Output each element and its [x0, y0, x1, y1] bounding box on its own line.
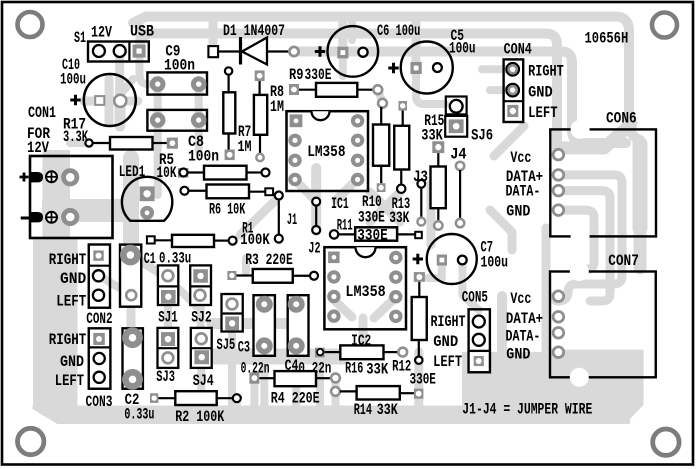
- ground pour left upper: [43, 150, 71, 238]
- jumper J4: [456, 162, 464, 228]
- wire R9 to R10: [378, 90, 383, 103]
- svg-text:RIGHT: RIGHT: [528, 62, 564, 80]
- svg-text:330E: 330E: [357, 226, 388, 244]
- svg-text:10656H: 10656H: [585, 30, 629, 48]
- svg-text:12V: 12V: [27, 139, 49, 157]
- svg-text:GND: GND: [506, 202, 530, 220]
- wire LED column: [123, 158, 139, 256]
- wire top bus 2: [140, 34, 557, 150]
- wire R16 pad down: [316, 357, 324, 406]
- svg-text:GND: GND: [506, 346, 530, 364]
- resistor R6: [181, 185, 274, 199]
- wire IC1 pin4 diag: [295, 180, 316, 201]
- wire C10 horizontal: [84, 97, 138, 106]
- svg-text:CON2: CON2: [86, 310, 112, 328]
- svg-text:SJ6: SJ6: [471, 127, 493, 145]
- svg-text:C1: C1: [144, 250, 156, 268]
- wire SJ1 to SJ4 diag: [179, 289, 196, 306]
- svg-text:100u: 100u: [481, 254, 509, 272]
- wire C10 vertical: [105, 79, 114, 123]
- svg-text:100K: 100K: [240, 231, 270, 249]
- wire CON2 to C1 diag: [101, 277, 128, 293]
- svg-text:100u: 100u: [449, 40, 476, 58]
- svg-text:R11: R11: [337, 216, 353, 234]
- capacitor C1: [120, 245, 141, 307]
- CON1 plus: [20, 173, 29, 182]
- capacitor C10: [84, 74, 136, 126]
- wire C1 to C2: [127, 307, 136, 328]
- svg-text:33K: 33K: [366, 361, 388, 379]
- svg-text:DATA+: DATA+: [506, 310, 543, 328]
- wire R2 right down: [233, 398, 241, 406]
- wire C10 down: [115, 101, 126, 126]
- resistor R9: [289, 83, 382, 97]
- svg-text:J3: J3: [413, 168, 428, 186]
- svg-text:3.3K: 3.3K: [63, 128, 88, 146]
- wire top to D1 anode: [209, 17, 218, 47]
- capacitor C9: [147, 72, 207, 94]
- C10 plus sign: [70, 95, 80, 105]
- svg-text:R9: R9: [289, 66, 304, 84]
- wire CON5 right column: [497, 296, 507, 352]
- capacitor C7: [427, 234, 477, 284]
- svg-text:33K: 33K: [421, 127, 443, 145]
- solder jumper SJ5: [222, 294, 243, 332]
- diode D1: [208, 37, 298, 65]
- C5 plus: [388, 63, 398, 73]
- mounting hole bottom-right: [653, 429, 679, 455]
- wire C4 down: [292, 356, 300, 406]
- wire under C3 band1: [210, 349, 345, 357]
- wire diag near GND: [490, 210, 512, 250]
- LED LED1: [122, 177, 172, 221]
- wire SJ2 to SJ4: [197, 306, 205, 327]
- resistor R15: [431, 141, 446, 230]
- svg-text:CON4: CON4: [504, 40, 532, 58]
- svg-text:J1: J1: [287, 211, 297, 229]
- wire S1 pin3 stub: [136, 28, 144, 48]
- svg-text:33K: 33K: [389, 209, 409, 227]
- svg-text:LM358: LM358: [307, 143, 345, 161]
- svg-text:CON5: CON5: [462, 289, 488, 307]
- svg-text:GND: GND: [60, 353, 84, 371]
- svg-text:GND: GND: [528, 83, 553, 101]
- svg-text:1M: 1M: [238, 138, 252, 156]
- svg-text:R12: R12: [392, 358, 411, 376]
- svg-text:R6 10K: R6 10K: [209, 200, 246, 218]
- wire CON6 inner plane: [633, 144, 648, 228]
- wire CON7 pad1 stub: [546, 292, 556, 300]
- svg-text:CON1: CON1: [28, 104, 56, 122]
- ground pour bottom band: [33, 406, 631, 425]
- svg-text:100n: 100n: [164, 57, 195, 75]
- wire C9-C8 left: [154, 84, 162, 195]
- svg-text:DATA-: DATA-: [506, 328, 541, 346]
- wire CON6 to CON7 gap band: [634, 228, 647, 268]
- resistor R8: [254, 70, 267, 161]
- resistor R13: [394, 101, 409, 193]
- wire CON1 horizontal band: [42, 199, 131, 222]
- wire IC2 pin diag1: [334, 300, 352, 317]
- svg-text:LED1: LED1: [119, 163, 145, 181]
- svg-text:SJ4: SJ4: [193, 372, 214, 390]
- resistor R16: [315, 345, 407, 359]
- C6 plus: [315, 46, 325, 56]
- wire top bus 3: [294, 52, 626, 144]
- capacitor C3: [254, 295, 275, 356]
- wire IC2 center down: [359, 318, 368, 346]
- svg-text:IC1: IC1: [331, 195, 349, 213]
- solder jumper SJ4: [191, 328, 212, 368]
- C7 plus: [413, 254, 423, 264]
- ground pour left lower: [33, 238, 78, 424]
- svg-text:CON6: CON6: [606, 110, 637, 128]
- mounting hole top-right: [652, 13, 677, 38]
- connector CON3: [89, 328, 111, 388]
- svg-text:C6 100u: C6 100u: [377, 22, 420, 40]
- svg-text:330E: 330E: [358, 208, 385, 226]
- svg-text:RIGHT: RIGHT: [49, 331, 87, 349]
- wire CON7 left column: [542, 228, 551, 350]
- resistor R7: [223, 67, 235, 160]
- wire CON6 data- nest: [564, 191, 610, 301]
- svg-text:D1 1N4007: D1 1N4007: [223, 22, 285, 40]
- resistor R14: [331, 386, 423, 399]
- mounting hole bottom-left: [18, 428, 44, 454]
- wire R15 column: [427, 184, 436, 245]
- svg-text:J2: J2: [308, 239, 320, 257]
- resistor R11 330E: [330, 227, 422, 240]
- svg-text:12V: 12V: [91, 24, 112, 42]
- wire C10 diag: [120, 79, 133, 95]
- wire top to C5 pos: [412, 17, 421, 63]
- solder jumper SJ2: [190, 265, 211, 305]
- capacitor C6: [328, 26, 379, 77]
- wire S1 pin3 to C9: [140, 51, 154, 84]
- wire C5 to SJ6: [416, 74, 445, 104]
- wire C1 to SJ1 diag: [131, 255, 166, 277]
- wire J2 column: [311, 168, 321, 231]
- svg-text:SJ5: SJ5: [217, 336, 236, 354]
- svg-text:330E: 330E: [305, 66, 332, 84]
- resistor R12: [412, 272, 427, 364]
- svg-text:GND: GND: [433, 333, 458, 351]
- wire CON4 gnd stub: [490, 86, 506, 94]
- wire top bus 1: [133, 17, 640, 231]
- svg-text:CON3: CON3: [86, 393, 113, 411]
- svg-text:LEFT: LEFT: [56, 292, 86, 310]
- svg-text:1M: 1M: [270, 98, 284, 116]
- svg-text:USB: USB: [130, 23, 154, 41]
- wire top to C6 pos: [338, 17, 347, 53]
- jumper J3: [417, 180, 425, 226]
- wire R12 down: [414, 352, 423, 406]
- svg-text:LEFT: LEFT: [528, 104, 558, 122]
- wire CON6 vcc to plane: [560, 124, 631, 148]
- wire SJ1 to SJ3: [164, 306, 172, 327]
- wire IC1 pin5 diag: [336, 179, 358, 200]
- resistor R2: [150, 391, 241, 405]
- wire diag near Vcc: [494, 126, 524, 156]
- ground pour center right: [462, 352, 556, 407]
- connector CON6: [550, 120, 656, 246]
- svg-text:100u: 100u: [60, 71, 86, 89]
- wire CON6 gnd nest: [564, 210, 594, 269]
- wire R4-R14 junction: [332, 378, 340, 406]
- CON1 minus: [21, 217, 31, 220]
- svg-text:Vcc: Vcc: [510, 290, 531, 308]
- svg-text:LM358: LM358: [345, 283, 385, 301]
- wire SJ5 down: [228, 332, 236, 405]
- wire C6 down: [339, 60, 347, 76]
- svg-text:330E: 330E: [410, 371, 436, 389]
- svg-text:GND: GND: [60, 270, 86, 288]
- svg-text:SJ3: SJ3: [156, 368, 175, 386]
- mounting hole top-left: [18, 12, 43, 37]
- switch S1: [88, 42, 149, 62]
- wire CON7 pad4 stub: [546, 350, 556, 352]
- wire R4 pad down: [250, 384, 258, 406]
- jumper J1: [275, 192, 283, 243]
- svg-text:C3: C3: [238, 339, 250, 357]
- wire R3 pad vertical: [242, 258, 250, 272]
- wire C9-C8 right: [195, 84, 203, 150]
- wire C3-C4 band: [212, 318, 288, 329]
- resistor R4: [249, 371, 340, 386]
- svg-text:R2 100K: R2 100K: [175, 408, 224, 426]
- svg-text:33K: 33K: [377, 401, 398, 419]
- svg-text:LEFT: LEFT: [433, 353, 462, 371]
- wire SJ4 down: [197, 364, 205, 406]
- wire C7 neg to CON5: [463, 266, 479, 310]
- wire C6 stub: [348, 17, 356, 41]
- connector CON1: [30, 156, 113, 238]
- op-amp IC1 LM358: [287, 111, 369, 191]
- svg-text:RIGHT: RIGHT: [431, 313, 466, 331]
- resistor R17: [85, 137, 178, 150]
- svg-text:SJ2: SJ2: [191, 308, 211, 326]
- capacitor C2: [122, 327, 143, 389]
- svg-text:Vcc: Vcc: [510, 149, 531, 167]
- connector CON4: [504, 59, 524, 122]
- resistor R3: [227, 269, 318, 283]
- resistor R1: [147, 235, 237, 247]
- capacitor C5: [401, 42, 453, 94]
- wire S1 pin2 to C10: [115, 51, 124, 101]
- svg-text:0.33u: 0.33u: [124, 406, 154, 424]
- svg-text:LEFT: LEFT: [55, 372, 85, 390]
- svg-text:10K: 10K: [157, 164, 177, 182]
- svg-text:RIGHT: RIGHT: [49, 251, 87, 269]
- connector CON5: [469, 309, 490, 372]
- svg-text:S1: S1: [74, 29, 86, 47]
- ground pour bottom right: [552, 350, 644, 424]
- wire IC2 pin diag2: [374, 297, 396, 318]
- resistor R5: [178, 166, 270, 180]
- wire R17 left stub: [70, 139, 88, 147]
- capacitor C8: [147, 110, 207, 131]
- solder jumper SJ6: [445, 97, 467, 137]
- wire C7 pos down: [428, 266, 442, 278]
- wire CON4 right stub: [482, 65, 506, 73]
- svg-text:R14: R14: [354, 401, 373, 419]
- svg-text:R4 220E: R4 220E: [271, 390, 320, 408]
- jumper J2: [312, 198, 320, 234]
- solder jumper SJ1: [158, 265, 178, 305]
- wire CON6 data+ nest: [556, 175, 622, 301]
- wire R10 X diag2: [370, 192, 400, 222]
- svg-text:R16: R16: [345, 360, 363, 378]
- wire R10 X diag1: [370, 192, 400, 222]
- svg-text:R3 220E: R3 220E: [245, 251, 293, 269]
- svg-text:DATA-: DATA-: [506, 182, 541, 200]
- connector CON7: [550, 262, 656, 387]
- svg-text:J4: J4: [450, 146, 467, 164]
- capacitor C4: [288, 295, 309, 356]
- wire under C3 band2: [210, 357, 345, 365]
- svg-text:100n: 100n: [188, 148, 219, 166]
- wire J1 diagonal: [240, 197, 279, 235]
- connector CON2: [89, 245, 110, 308]
- solder jumper SJ3: [158, 328, 179, 368]
- svg-text:J1-J4 = JUMPER WIRE: J1-J4 = JUMPER WIRE: [462, 401, 592, 419]
- resistor R10: [373, 99, 389, 192]
- wire C3 down: [260, 356, 268, 406]
- svg-text:SJ1: SJ1: [158, 308, 177, 326]
- op-amp IC2 LM358: [324, 247, 406, 329]
- svg-text:CON7: CON7: [608, 252, 639, 270]
